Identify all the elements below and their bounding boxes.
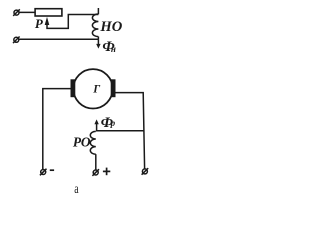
- svg-text:р: р: [110, 118, 116, 128]
- svg-text:н: н: [111, 44, 116, 54]
- svg-text:а: а: [74, 182, 79, 197]
- svg-text:РО: РО: [73, 134, 91, 149]
- svg-text:Г: Г: [92, 84, 100, 96]
- svg-text:Р: Р: [35, 16, 44, 31]
- svg-text:НО: НО: [99, 19, 122, 35]
